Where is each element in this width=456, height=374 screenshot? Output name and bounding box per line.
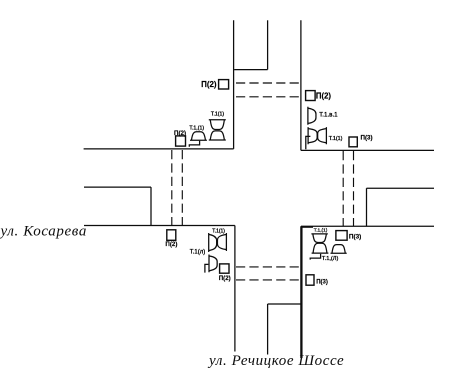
svg-text:Т.1.в.1: Т.1.в.1 bbox=[319, 112, 338, 119]
svg-text:Т.1,(Л): Т.1,(Л) bbox=[322, 256, 339, 262]
svg-text:П(2): П(2) bbox=[165, 241, 177, 248]
svg-text:Т.1,(1): Т.1,(1) bbox=[189, 126, 204, 132]
svg-text:П(2): П(2) bbox=[174, 130, 186, 137]
svg-text:Т.1(1): Т.1(1) bbox=[211, 112, 225, 118]
svg-text:ул. Речицкое Шоссе: ул. Речицкое Шоссе bbox=[207, 353, 344, 369]
svg-text:Т.1(1): Т.1(1) bbox=[329, 136, 343, 142]
svg-text:П(2): П(2) bbox=[316, 92, 332, 101]
svg-text:ул. Косарева: ул. Косарева bbox=[0, 224, 87, 240]
svg-text:П(3): П(3) bbox=[349, 233, 361, 240]
svg-text:Т.1(1): Т.1(1) bbox=[212, 229, 225, 235]
svg-text:Т.1(л): Т.1(л) bbox=[190, 250, 206, 256]
svg-text:П(2): П(2) bbox=[219, 275, 231, 282]
svg-text:П(3): П(3) bbox=[316, 279, 328, 285]
svg-text:П(2): П(2) bbox=[201, 80, 217, 89]
svg-text:Т.1,(1): Т.1,(1) bbox=[314, 228, 328, 234]
svg-text:П(3): П(3) bbox=[361, 135, 373, 142]
